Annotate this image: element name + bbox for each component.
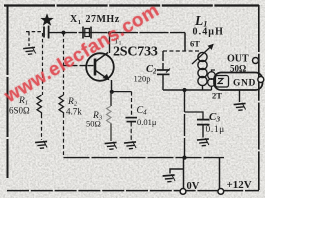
ground (R1) <box>35 140 48 148</box>
terminal circle +12V <box>218 189 224 195</box>
wire supply horizontal rail <box>64 157 225 159</box>
inductor L1 primary winding <box>198 52 207 90</box>
wire emitter down <box>111 80 113 92</box>
capacitor C3 <box>197 120 210 138</box>
svg-text:GND: GND <box>233 79 256 89</box>
node junction on tank bottom <box>182 88 186 92</box>
transistor Q1 2SC733 <box>86 53 114 81</box>
wire supply vertical <box>184 90 186 158</box>
node collector junction <box>108 31 111 34</box>
capacitor C1 trimmer plates <box>44 26 49 39</box>
wire 0V bottom rail <box>7 190 259 192</box>
svg-text:0.01μ: 0.01μ <box>137 117 157 127</box>
svg-text:0.1μ: 0.1μ <box>206 125 225 135</box>
capacitor C2 <box>157 51 170 90</box>
wire dashed C2 top to coil <box>163 50 200 52</box>
ground (chassis 0V) <box>163 174 176 182</box>
wire collector stub <box>109 33 111 53</box>
node junction dot at base feed <box>62 31 66 35</box>
ground (C3) <box>197 138 210 146</box>
connector jack outline <box>214 73 263 91</box>
inductor L1 secondary 2T <box>208 70 216 90</box>
wire dashed to trimmer cap <box>26 31 43 33</box>
svg-text:0.4μH: 0.4μH <box>193 27 224 38</box>
connector pin box <box>216 76 229 88</box>
wire tank bottom <box>163 89 212 91</box>
svg-text:4.7k: 4.7k <box>66 107 82 117</box>
resistor R1 <box>37 33 43 140</box>
ground (C4) <box>124 141 137 149</box>
svg-text:120p: 120p <box>134 74 151 84</box>
wire chassis hook <box>170 169 184 174</box>
node emitter junction <box>110 90 114 94</box>
ground (trimmer branch) <box>23 46 36 54</box>
wire top corner down to C2/L1 node <box>184 33 186 51</box>
ground (jack) <box>234 102 247 110</box>
wire emitter to C4 <box>112 91 132 93</box>
svg-text:0V: 0V <box>187 181 200 192</box>
ground (emitter R3) <box>105 141 118 149</box>
border frame <box>4 5 259 190</box>
crystal X1 <box>83 27 91 39</box>
wire C3 tap <box>185 112 204 119</box>
watermark www.elecfans.com <box>1 0 164 108</box>
resistor R3 (faint) <box>107 92 112 141</box>
connector pin symbol <box>218 79 223 84</box>
wire base-feed vertical (dashed) <box>63 33 65 95</box>
resistor R2 <box>59 95 64 158</box>
svg-text:6T: 6T <box>190 39 200 49</box>
svg-text:50Ω: 50Ω <box>86 119 101 129</box>
wire base <box>64 65 95 67</box>
star mark <box>40 13 53 26</box>
wire top node (crystal line) <box>48 32 185 34</box>
svg-text:+12V: +12V <box>227 179 252 191</box>
terminal circle OUT <box>253 58 259 64</box>
tuning core arrow <box>192 45 213 65</box>
wire down to +12V terminal <box>219 158 221 189</box>
terminal circle 0V <box>180 189 186 195</box>
wire 0V drop from supply node <box>183 158 185 189</box>
wire jack to ground <box>239 90 241 102</box>
wire dashed down to ground from trimmer <box>28 32 30 46</box>
node junction supply <box>182 156 186 160</box>
svg-text:2T: 2T <box>212 91 222 101</box>
capacitor C4 <box>126 92 138 140</box>
svg-text:2SC733: 2SC733 <box>113 45 158 60</box>
terminal circle on border <box>258 77 264 83</box>
